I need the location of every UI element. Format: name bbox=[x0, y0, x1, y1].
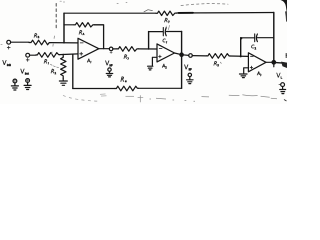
wire C1 right down to A2 output bbox=[181, 32, 183, 55]
wire R3 to A2 inverting input bbox=[139, 48, 158, 50]
label R1 bbox=[44, 59, 48, 64]
node junction at x64 (inverting input net) bbox=[63, 13, 65, 43]
resistor R1 bbox=[36, 53, 60, 58]
wire A2 output to junction bbox=[175, 53, 182, 55]
op-amp A3 bbox=[248, 53, 266, 72]
bottom feedback wire left bbox=[73, 88, 115, 90]
label RB bbox=[34, 34, 39, 38]
label RA bbox=[79, 30, 84, 34]
input terminal VinA bbox=[26, 53, 30, 61]
resistor R4 bbox=[115, 86, 139, 91]
op-amp A1 bbox=[78, 38, 99, 59]
label R3 bbox=[124, 55, 128, 60]
node VHP terminal circle bbox=[109, 47, 113, 53]
label VHP bbox=[106, 61, 113, 66]
junction dot VLP node bbox=[272, 61, 276, 65]
wire RB to A1 inverting input bbox=[50, 42, 78, 44]
wire VLP feedback vertical bbox=[273, 13, 275, 63]
grounded terminal under VBP bbox=[187, 73, 193, 83]
scan crease dotted diagonal top middle bbox=[181, 4, 228, 6]
scan artifact bump over top wire bbox=[144, 10, 152, 12]
bottom feedback wire right bbox=[139, 87, 182, 89]
capacitor C2 bbox=[241, 34, 274, 42]
label R5 bbox=[214, 61, 219, 66]
right edge smudge marks bbox=[284, 53, 287, 101]
label VinB bbox=[3, 60, 11, 65]
label R2 bbox=[51, 69, 56, 74]
label VinA bbox=[21, 69, 29, 74]
tick after R5 label bbox=[220, 62, 223, 63]
wire junction up to C1 bbox=[148, 32, 150, 49]
resistor R7 bbox=[156, 11, 177, 15]
ground below R2 bbox=[59, 81, 67, 85]
junction dot A2 output bbox=[180, 53, 183, 56]
scan crease dotted vertical bbox=[55, 4, 57, 29]
grounded terminal VLP output bbox=[279, 83, 286, 94]
wire bottom feedback up to VBP node bbox=[181, 55, 183, 88]
label A3 bbox=[257, 72, 261, 76]
wire A3 output to VLP node bbox=[266, 61, 274, 63]
wire junction to VBP terminal bbox=[182, 54, 189, 57]
wire R5 to A3 inverting input bbox=[230, 55, 248, 57]
ground below A3 bbox=[240, 74, 248, 78]
grounded terminal under VinB bbox=[11, 79, 18, 90]
darker smear segment of top wire bbox=[179, 12, 194, 14]
wire A3 noninverting to ground bbox=[244, 68, 249, 74]
wire VBP to R5 bbox=[192, 55, 206, 57]
faint specks top bbox=[60, 1, 127, 3]
label R7 bbox=[165, 18, 170, 23]
grounded terminal under VHP bbox=[106, 68, 112, 77]
resistor R3 bbox=[117, 47, 139, 52]
edge smear at VLP wire bbox=[281, 62, 287, 68]
junction blob at C2 corner bbox=[240, 37, 242, 39]
wire RA left bbox=[64, 24, 74, 26]
bottom scan noise dashes bbox=[1, 44, 277, 102]
resistor R2 vertical bbox=[61, 54, 66, 80]
label A2 bbox=[162, 64, 166, 68]
label A1 bbox=[87, 59, 91, 63]
stub below VLP junction bbox=[273, 62, 275, 67]
input terminal VinB bbox=[7, 40, 11, 49]
top feedback wire left segment bbox=[64, 12, 156, 14]
ground below A2 bbox=[148, 66, 153, 70]
label C2 bbox=[252, 45, 256, 49]
node VBP terminal circle bbox=[189, 54, 193, 58]
wire VHP to R3 bbox=[113, 48, 117, 50]
wire VLP node to right edge bbox=[274, 61, 285, 64]
wire VinB terminal to RB bbox=[11, 41, 29, 43]
label R4 bbox=[121, 77, 127, 82]
label C1 bbox=[163, 39, 167, 43]
wire R1 to A1 noninverting input bbox=[60, 53, 79, 56]
capacitor C1 bbox=[149, 28, 182, 36]
dashed crease between R1 and R2 labels bbox=[51, 64, 60, 67]
grounded terminal under VinA bbox=[24, 79, 31, 90]
faint handwriting mark below R7 bbox=[166, 25, 170, 29]
wire A2 noninverting to ground bbox=[152, 57, 157, 66]
wire noninverting node down to bottom feedback bbox=[72, 54, 74, 88]
top-right page curl mark bbox=[281, 0, 287, 15]
scan crease specks mid bbox=[52, 36, 55, 54]
junction dot at A3 input bbox=[240, 55, 242, 57]
op-amp A2 bbox=[157, 44, 175, 62]
resistor RA bbox=[74, 23, 94, 27]
label VBP bbox=[185, 65, 192, 70]
resistor RB bbox=[29, 40, 50, 45]
wire VinA terminal to R1 bbox=[30, 54, 36, 56]
label VLP bbox=[277, 73, 282, 78]
wire RA right to A1 output bbox=[94, 25, 104, 49]
wire junction up to C2 bbox=[240, 38, 242, 57]
top feedback wire right segment bbox=[177, 12, 274, 15]
resistor R5 bbox=[207, 54, 231, 59]
wire A1 output bbox=[99, 48, 110, 50]
